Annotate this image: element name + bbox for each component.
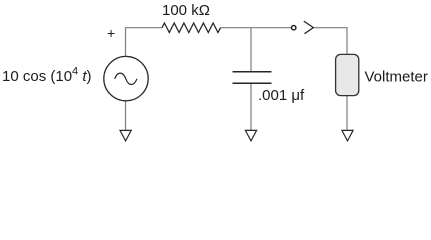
capacitor C bottom plate: [233, 82, 272, 84]
capacitor C top plate: [233, 71, 272, 73]
wire probe to voltmeter: [313, 28, 347, 55]
svg-text:Voltmeter: Voltmeter: [365, 68, 428, 85]
resistor R (100 kOhm) zigzag: [162, 23, 221, 33]
svg-text:.001 μf: .001 μf: [258, 87, 305, 104]
sine symbol inside source: [115, 73, 137, 84]
svg-text:100 kΩ: 100 kΩ: [162, 2, 210, 19]
wire resistor to node A to terminal: [221, 27, 292, 29]
wire voltmeter to ground: [346, 96, 348, 131]
wire node A down to capacitor: [250, 28, 252, 71]
voltmeter box U1: [336, 54, 359, 95]
wire top-left corner (source plus terminal to resistor): [126, 28, 163, 57]
voltage source circle: [104, 56, 148, 100]
open terminal node: [292, 26, 296, 30]
ground under capacitor: [245, 130, 256, 141]
svg-text:10 cos (104 t): 10 cos (104 t): [2, 66, 92, 86]
ground under source: [120, 130, 131, 141]
probe arrow symbol: [304, 21, 314, 34]
wire source to ground: [125, 101, 127, 131]
svg-text:+: +: [107, 25, 115, 41]
ground under voltmeter: [342, 130, 353, 141]
wire capacitor to ground: [250, 84, 252, 131]
